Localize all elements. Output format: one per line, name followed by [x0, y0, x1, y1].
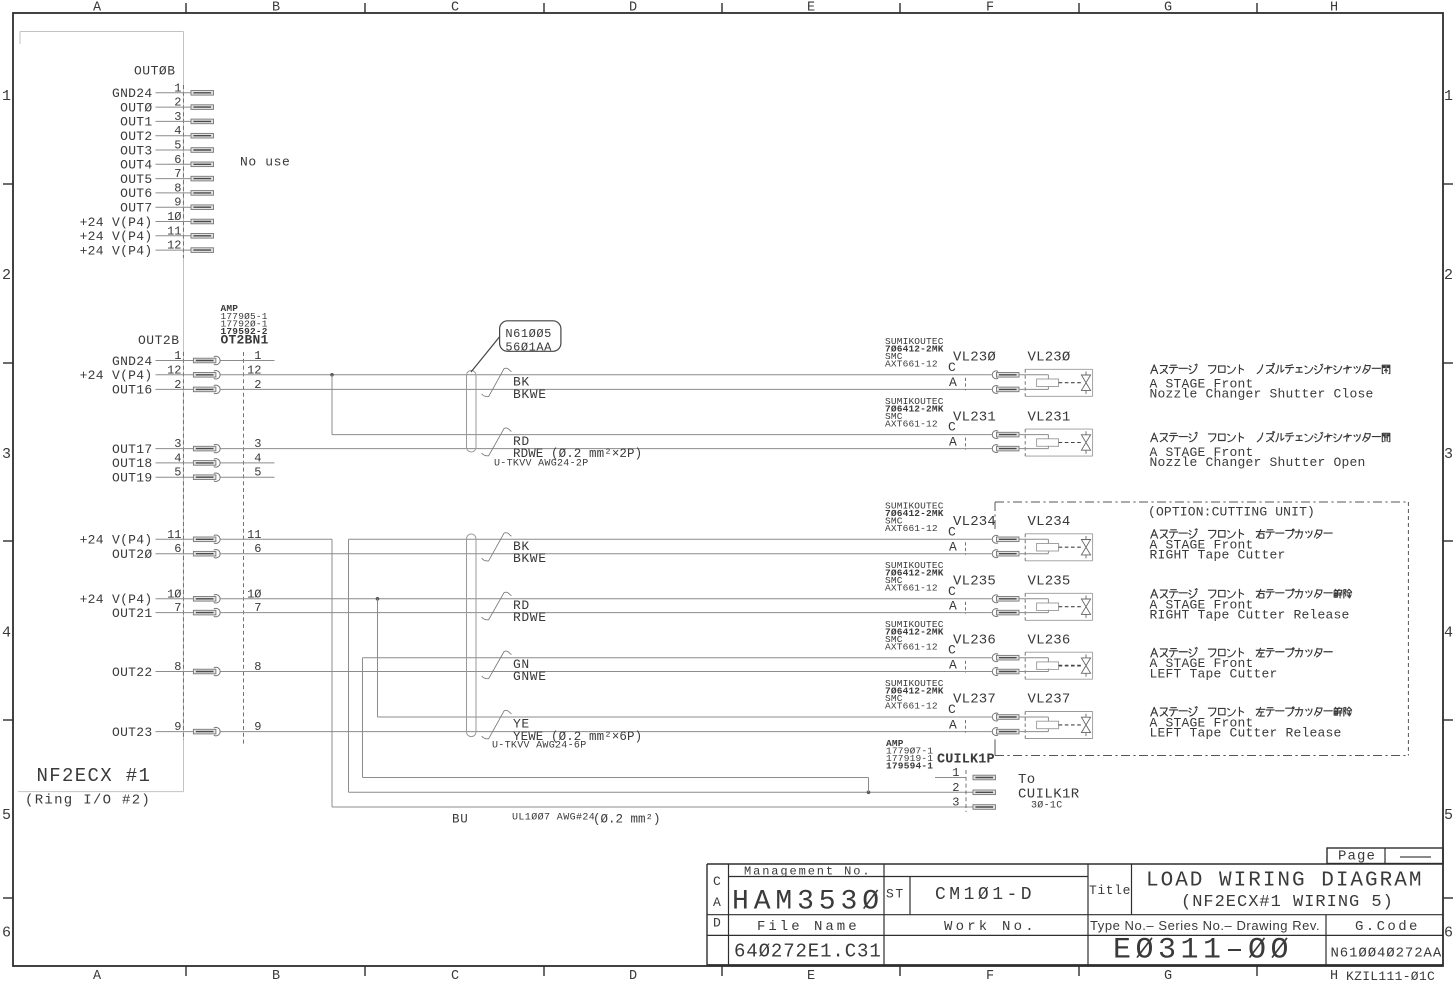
wire BK to VL234 C [349, 538, 992, 540]
svg-text:LEFT Tape Cutter: LEFT Tape Cutter [1150, 666, 1278, 681]
connector OUT0B pin 2 OUTØ [120, 96, 213, 116]
option box dash-dot border [995, 502, 1408, 756]
svg-text:OUT3: OUT3 [120, 143, 152, 158]
connector OUT2B pin 8 OUT22 [112, 660, 262, 680]
wire CUILK1P pin1 stub [935, 777, 966, 779]
svg-text:AXT661-12: AXT661-12 [885, 359, 938, 370]
description VL237 japanese [1151, 707, 1352, 716]
valve connector boundary dashed [965, 602, 967, 614]
svg-text:VL237: VL237 [953, 692, 996, 708]
svg-text:AXT661-12: AXT661-12 [885, 523, 938, 534]
svg-text:(OPTION:CUTTING UNIT): (OPTION:CUTTING UNIT) [1148, 505, 1315, 520]
cable sheath 2P [467, 371, 477, 453]
svg-text:OUT2: OUT2 [120, 129, 152, 144]
connector OUT2B pin 6 OUT2Ø [112, 542, 262, 562]
svg-text:HAM353Ø: HAM353Ø [732, 887, 884, 918]
svg-text:+24 V(P4): +24 V(P4) [80, 229, 153, 244]
cable slash pair VL234 [482, 533, 512, 561]
svg-text:D: D [629, 969, 637, 984]
wire OUT18 stub pin4 [244, 462, 275, 464]
connector CUILK1P pin 2 [952, 781, 995, 795]
svg-text:A: A [93, 1, 102, 16]
cable slash pair VL231 [482, 428, 512, 456]
wire interlock return CUILK1P pin2 [349, 791, 974, 793]
contact C of VL236 [992, 654, 1019, 662]
note To CUILK1R [1018, 772, 1080, 812]
valve connector boundary dashed [965, 720, 967, 733]
svg-text:OUT16: OUT16 [112, 383, 153, 398]
contact C of VL231 [992, 431, 1019, 439]
svg-text:Type No.– Series No.– Drawing: Type No.– Series No.– Drawing Rev. [1090, 918, 1320, 933]
svg-text:EØ311–ØØ: EØ311–ØØ [1113, 934, 1293, 968]
svg-text:LEFT Tape Cutter Release: LEFT Tape Cutter Release [1150, 726, 1342, 741]
wire OUT23 pin9 to VL237 A (YEWE) [244, 731, 992, 733]
svg-text:C: C [948, 524, 956, 539]
svg-text:H: H [1330, 969, 1338, 984]
svg-text:5: 5 [2, 807, 11, 824]
contact C of VL234 [992, 535, 1019, 543]
svg-text:VL231: VL231 [1028, 409, 1071, 425]
connector OUT2B pin 5 OUT19 [112, 466, 262, 486]
svg-text:A: A [949, 717, 957, 732]
wire GND24 stub pin1 [244, 360, 275, 362]
description VL234 japanese [1151, 529, 1332, 538]
description VL231 japanese [1151, 431, 1390, 441]
svg-text:179594-1: 179594-1 [886, 761, 933, 772]
svg-text:RIGHT Tape Cutter Release: RIGHT Tape Cutter Release [1150, 608, 1350, 623]
svg-text:(Ø.2 mm²): (Ø.2 mm²) [593, 813, 661, 827]
valve body VL235 [1019, 574, 1093, 621]
svg-text:OUT4: OUT4 [120, 158, 152, 173]
svg-text:VL23Ø: VL23Ø [1028, 350, 1071, 366]
title block [707, 864, 1443, 965]
contact A of VL230 [992, 385, 1019, 393]
title block CAD [713, 874, 721, 931]
svg-text:ST: ST [886, 887, 905, 902]
svg-text:4: 4 [1444, 625, 1453, 642]
cable slash pair VL230 [482, 368, 512, 396]
svg-text:+24 V(P4): +24 V(P4) [80, 592, 153, 607]
svg-text:A: A [949, 434, 957, 449]
svg-text:C: C [948, 420, 956, 435]
svg-text:Nozzle Changer Shutter Close: Nozzle Changer Shutter Close [1150, 387, 1374, 402]
junction interlock return [867, 791, 871, 795]
svg-text:BKWE: BKWE [513, 387, 547, 402]
svg-text:D: D [629, 1, 637, 16]
svg-text:Work No.: Work No. [944, 919, 1037, 935]
svg-text:OUT17: OUT17 [112, 442, 153, 457]
svg-text:3: 3 [952, 796, 959, 810]
connector OUT2B pin 1Ø +24 V(P4) [80, 587, 262, 607]
wire OUT19 stub pin5 [244, 476, 275, 478]
wire RD branch vertical [331, 375, 333, 435]
svg-text:2: 2 [952, 781, 959, 795]
connector OUT2B pin 9 OUT23 [112, 720, 262, 740]
valve body VL230 [1019, 350, 1093, 397]
description VL236 japanese [1151, 648, 1332, 657]
svg-text:AXT661-12: AXT661-12 [885, 701, 938, 712]
connector OUT0B pin 12 +24 V(P4) [80, 239, 214, 259]
svg-text:AXT661-12: AXT661-12 [885, 641, 938, 652]
svg-text:E: E [807, 969, 815, 984]
wire GN feed corner drop [868, 778, 870, 793]
connector OUT0B pin 10 +24 V(P4) [80, 210, 214, 230]
connector OUT0B pin 6 OUT4 [120, 153, 213, 173]
svg-text:VL236: VL236 [1028, 632, 1071, 648]
svg-text:4: 4 [2, 625, 11, 642]
svg-text:OUT23: OUT23 [112, 725, 153, 740]
svg-text:Nozzle Changer Shutter Open: Nozzle Changer Shutter Open [1150, 455, 1366, 470]
svg-text:D: D [713, 916, 721, 931]
svg-text:OUT6: OUT6 [120, 186, 152, 201]
svg-text:OUT2B: OUT2B [138, 333, 180, 348]
svg-text:GND24: GND24 [112, 354, 153, 369]
solenoid valve VL237 part text [885, 678, 944, 712]
svg-text:OUT5: OUT5 [120, 172, 152, 187]
svg-text:OUTØ: OUTØ [120, 100, 152, 115]
svg-text:OUT21: OUT21 [112, 606, 153, 621]
valve body VL234 [1019, 514, 1093, 561]
balloon callout N61005 5601AA [471, 321, 561, 372]
svg-text:Page: Page [1338, 849, 1376, 865]
svg-text:OUT2Ø: OUT2Ø [112, 547, 153, 562]
cable sheath 6P [467, 534, 477, 737]
wire label BU UL1007 [452, 812, 661, 827]
svg-text:VL236: VL236 [953, 632, 996, 648]
svg-text:C: C [948, 702, 956, 717]
junction +24V pin10 / YE branch [376, 597, 380, 601]
svg-text:1: 1 [2, 88, 11, 105]
svg-text:G: G [1164, 1, 1172, 16]
svg-text:VL235: VL235 [1028, 574, 1071, 590]
connector OUT2B boundary dashed [182, 352, 184, 740]
svg-text:BU: BU [452, 813, 468, 827]
AMP part numbers for OT2BN1 [221, 303, 268, 337]
wire OUT22 pin8 to VL236 A (GNWE) [244, 671, 992, 673]
svg-text:OT2BN1: OT2BN1 [221, 333, 269, 348]
svg-text:RIGHT Tape Cutter: RIGHT Tape Cutter [1150, 548, 1286, 563]
wire interlock return vertical to BK [348, 539, 350, 792]
svg-text:B: B [272, 969, 280, 984]
svg-text:VL234: VL234 [1028, 514, 1071, 530]
svg-text:E: E [807, 1, 815, 16]
svg-text:GND24: GND24 [112, 86, 153, 101]
valve connector boundary dashed [965, 542, 967, 554]
svg-text:C: C [713, 874, 721, 889]
svg-text:F: F [986, 1, 994, 16]
svg-text:NF2ECX #1: NF2ECX #1 [37, 765, 152, 787]
contact A of VL235 [992, 609, 1019, 617]
svg-text:A: A [949, 657, 957, 672]
svg-text:File Name: File Name [757, 919, 860, 935]
harness connector OT2BN1 boundary dashed [243, 352, 245, 746]
svg-text:N61ØØ5: N61ØØ5 [505, 327, 552, 341]
svg-text:OUT7: OUT7 [120, 201, 152, 216]
svg-text:Management No.: Management No. [744, 865, 871, 879]
wire YE branch vertical [377, 599, 379, 717]
wire RD to VL231 C [332, 434, 992, 436]
svg-text:GNWE: GNWE [513, 669, 547, 684]
svg-text:C: C [451, 1, 459, 16]
svg-text:2: 2 [2, 267, 11, 284]
svg-text:A: A [949, 540, 957, 555]
connector OUT2B pin 11 +24 V(P4) [80, 528, 262, 548]
wire OUT20 pin6 to VL234 A (BKWE) [244, 553, 992, 555]
connector CUILK1P boundary dashed [965, 770, 967, 812]
wire +24V(P4) pin11 to interlock drop [244, 538, 333, 540]
svg-text:KZIL111-Ø1C: KZIL111-Ø1C [1346, 969, 1435, 984]
svg-text:OUT1: OUT1 [120, 115, 152, 130]
connector OUT2B pin 2 OUT16 [112, 378, 262, 398]
svg-text:VL234: VL234 [953, 514, 996, 530]
svg-text:U-TKVV AWG24-6P: U-TKVV AWG24-6P [492, 741, 587, 752]
svg-text:F: F [986, 969, 994, 984]
svg-text:6: 6 [2, 925, 11, 942]
cable slash pair VL235 [482, 592, 512, 620]
contact A of VL236 [992, 668, 1019, 676]
valve connector boundary dashed [965, 378, 967, 391]
svg-text:C: C [948, 584, 956, 599]
connector OUT0B pin 1 GND24 [112, 81, 214, 101]
svg-text:5: 5 [1444, 807, 1453, 824]
connector OUT0B pin 7 OUT5 [120, 167, 213, 187]
connector OUT0B pin 11 +24 V(P4) [80, 224, 214, 244]
svg-text:3: 3 [2, 446, 11, 463]
wire OUT17 pin3 to VL231 A (RDWE) [244, 448, 992, 450]
svg-text:1: 1 [1444, 88, 1453, 105]
solenoid valve VL234 part text [885, 501, 944, 535]
svg-text:OUT22: OUT22 [112, 665, 153, 680]
svg-text:A: A [713, 895, 721, 910]
svg-text:B: B [272, 1, 280, 16]
wire GN feed bottom run [363, 777, 869, 779]
svg-text:VL235: VL235 [953, 574, 996, 590]
svg-text:2: 2 [1444, 267, 1453, 284]
svg-text:AXT661-12: AXT661-12 [885, 583, 938, 594]
svg-text:AXT661-12: AXT661-12 [885, 418, 938, 429]
connector OUT0B pin 8 OUT6 [120, 181, 213, 201]
solenoid valve VL235 part text [885, 560, 944, 594]
junction +24V pin12 / RD branch [330, 373, 334, 377]
svg-text:+24 V(P4): +24 V(P4) [80, 215, 153, 230]
connector OUT2B pin 4 OUT18 [112, 451, 262, 471]
wire GN to VL236 C [363, 657, 992, 659]
connector OUT0B pin 4 OUT2 [120, 124, 213, 144]
AMP part numbers for CUILK1P [886, 738, 933, 772]
svg-text:C: C [948, 643, 956, 658]
svg-text:C: C [948, 360, 956, 375]
connector OUT0B pin 3 OUT1 [120, 110, 213, 130]
svg-text:No use: No use [240, 155, 290, 170]
connector OUT0B boundary dashed [182, 85, 184, 258]
svg-text:LOAD WIRING DIAGRAM: LOAD WIRING DIAGRAM [1146, 870, 1423, 893]
svg-text:A: A [949, 598, 957, 613]
svg-text:CUILK1P: CUILK1P [937, 753, 995, 768]
svg-text:G: G [1164, 969, 1172, 984]
wire YE to VL237 C [378, 716, 992, 718]
svg-text:(Ring I/O #2): (Ring I/O #2) [25, 793, 151, 809]
svg-text:+24 V(P4): +24 V(P4) [80, 533, 153, 548]
connector OUT2B pin 12 +24 V(P4) [80, 363, 262, 383]
solenoid valve VL236 part text [885, 619, 944, 653]
wire OUT21 pin7 to VL235 A (RDWE) [244, 612, 992, 614]
connector OUT2B pin 1 GND24 [112, 349, 262, 369]
wire BU interlock out to CUILK1P pin3 [332, 806, 973, 808]
svg-text:A: A [949, 375, 957, 390]
connector OUT2B pin 7 OUT21 [112, 601, 262, 621]
valve body VL231 [1019, 409, 1093, 456]
svg-text:(NF2ECX#1 WIRING 5): (NF2ECX#1 WIRING 5) [1181, 893, 1394, 912]
description VL235 japanese [1151, 589, 1352, 598]
svg-text:C: C [451, 969, 459, 984]
svg-text:3Ø-1C: 3Ø-1C [1031, 800, 1063, 812]
svg-text:OUT18: OUT18 [112, 456, 153, 471]
svg-text:U-TKVV AWG24-2P: U-TKVV AWG24-2P [494, 459, 589, 470]
svg-text:G.Code: G.Code [1355, 919, 1420, 935]
wire +24V(P4) pin12 to VL230 C (BK) [244, 374, 992, 376]
connector OUT0B pin 5 OUT3 [120, 139, 213, 159]
svg-text:64Ø272E1.C31: 64Ø272E1.C31 [734, 941, 882, 963]
svg-text:OUT19: OUT19 [112, 471, 153, 486]
wire interlock drop pin11 vertical [331, 539, 333, 807]
cable slash pair VL236 [482, 651, 512, 679]
contact C of VL230 [992, 371, 1019, 379]
valve body VL237 [1019, 692, 1093, 739]
svg-text:OUTØB: OUTØB [134, 64, 176, 79]
svg-text:VL231: VL231 [953, 409, 996, 425]
svg-text:RDWE: RDWE [513, 610, 547, 625]
wire +24V(P4) pin10 to VL235 C (RD) [244, 598, 992, 600]
svg-text:H: H [1330, 1, 1338, 16]
svg-text:Title: Title [1089, 883, 1131, 898]
contact A of VL237 [992, 728, 1019, 736]
svg-text:+24 V(P4): +24 V(P4) [80, 243, 153, 258]
svg-text:CM1Ø1-D: CM1Ø1-D [935, 885, 1035, 905]
svg-text:N61ØØ4Ø272AA: N61ØØ4Ø272AA [1331, 946, 1443, 962]
contact C of VL237 [992, 713, 1019, 721]
contact C of VL235 [992, 595, 1019, 603]
wire GN feed vertical [362, 658, 364, 778]
valve body VL236 [1019, 632, 1093, 679]
svg-text:VL237: VL237 [1028, 692, 1071, 708]
page box [1327, 848, 1443, 865]
contact A of VL231 [992, 445, 1019, 453]
solenoid valve VL231 part text [885, 396, 944, 430]
svg-text:VL23Ø: VL23Ø [953, 350, 996, 366]
contact A of VL234 [992, 550, 1019, 558]
svg-text:UL1ØØ7 AWG#24: UL1ØØ7 AWG#24 [512, 812, 595, 824]
valve connector boundary dashed [965, 438, 967, 450]
svg-text:3: 3 [1444, 446, 1453, 463]
cable slash pair VL237 [482, 710, 512, 738]
svg-text:BKWE: BKWE [513, 551, 547, 566]
connector CUILK1P pin 1 [952, 766, 995, 780]
svg-text:+24 V(P4): +24 V(P4) [80, 368, 153, 383]
solenoid valve VL230 part text [885, 336, 944, 370]
description VL230 japanese [1151, 363, 1390, 373]
connector OUT2B pin 3 OUT17 [112, 437, 262, 457]
svg-text:6: 6 [1444, 925, 1453, 942]
svg-text:56Ø1AA: 56Ø1AA [505, 340, 552, 354]
wire OUT16 pin2 to VL230 A (BKWE) [244, 388, 992, 390]
valve connector boundary dashed [965, 661, 967, 673]
connector OUT0B pin 9 OUT7 [120, 196, 213, 216]
I/O block NF2ECX #1 outline [18, 32, 184, 792]
svg-text:A: A [93, 969, 102, 984]
connector CUILK1P pin 3 [952, 796, 995, 810]
